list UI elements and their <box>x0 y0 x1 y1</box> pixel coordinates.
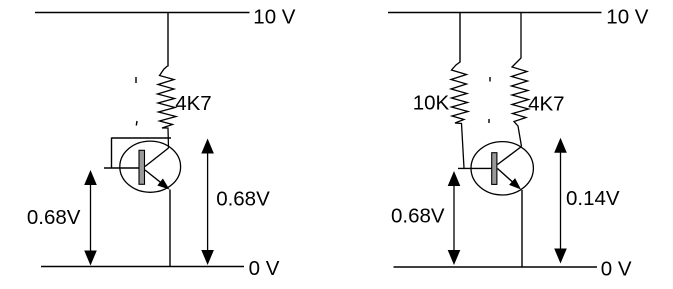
svg-text:10K: 10K <box>413 91 450 114</box>
svg-text:0 V: 0 V <box>601 257 632 280</box>
svg-text:0 V: 0 V <box>249 257 280 280</box>
svg-text:10 V: 10 V <box>253 5 295 28</box>
svg-text:0.68V: 0.68V <box>216 187 270 210</box>
svg-text:0.14V: 0.14V <box>566 187 620 210</box>
svg-text:0.68V: 0.68V <box>391 205 445 228</box>
svg-text:4K7: 4K7 <box>175 92 211 115</box>
svg-text:4K7: 4K7 <box>528 92 564 115</box>
svg-text:10 V: 10 V <box>606 6 648 29</box>
svg-text:0.68V: 0.68V <box>27 206 81 229</box>
